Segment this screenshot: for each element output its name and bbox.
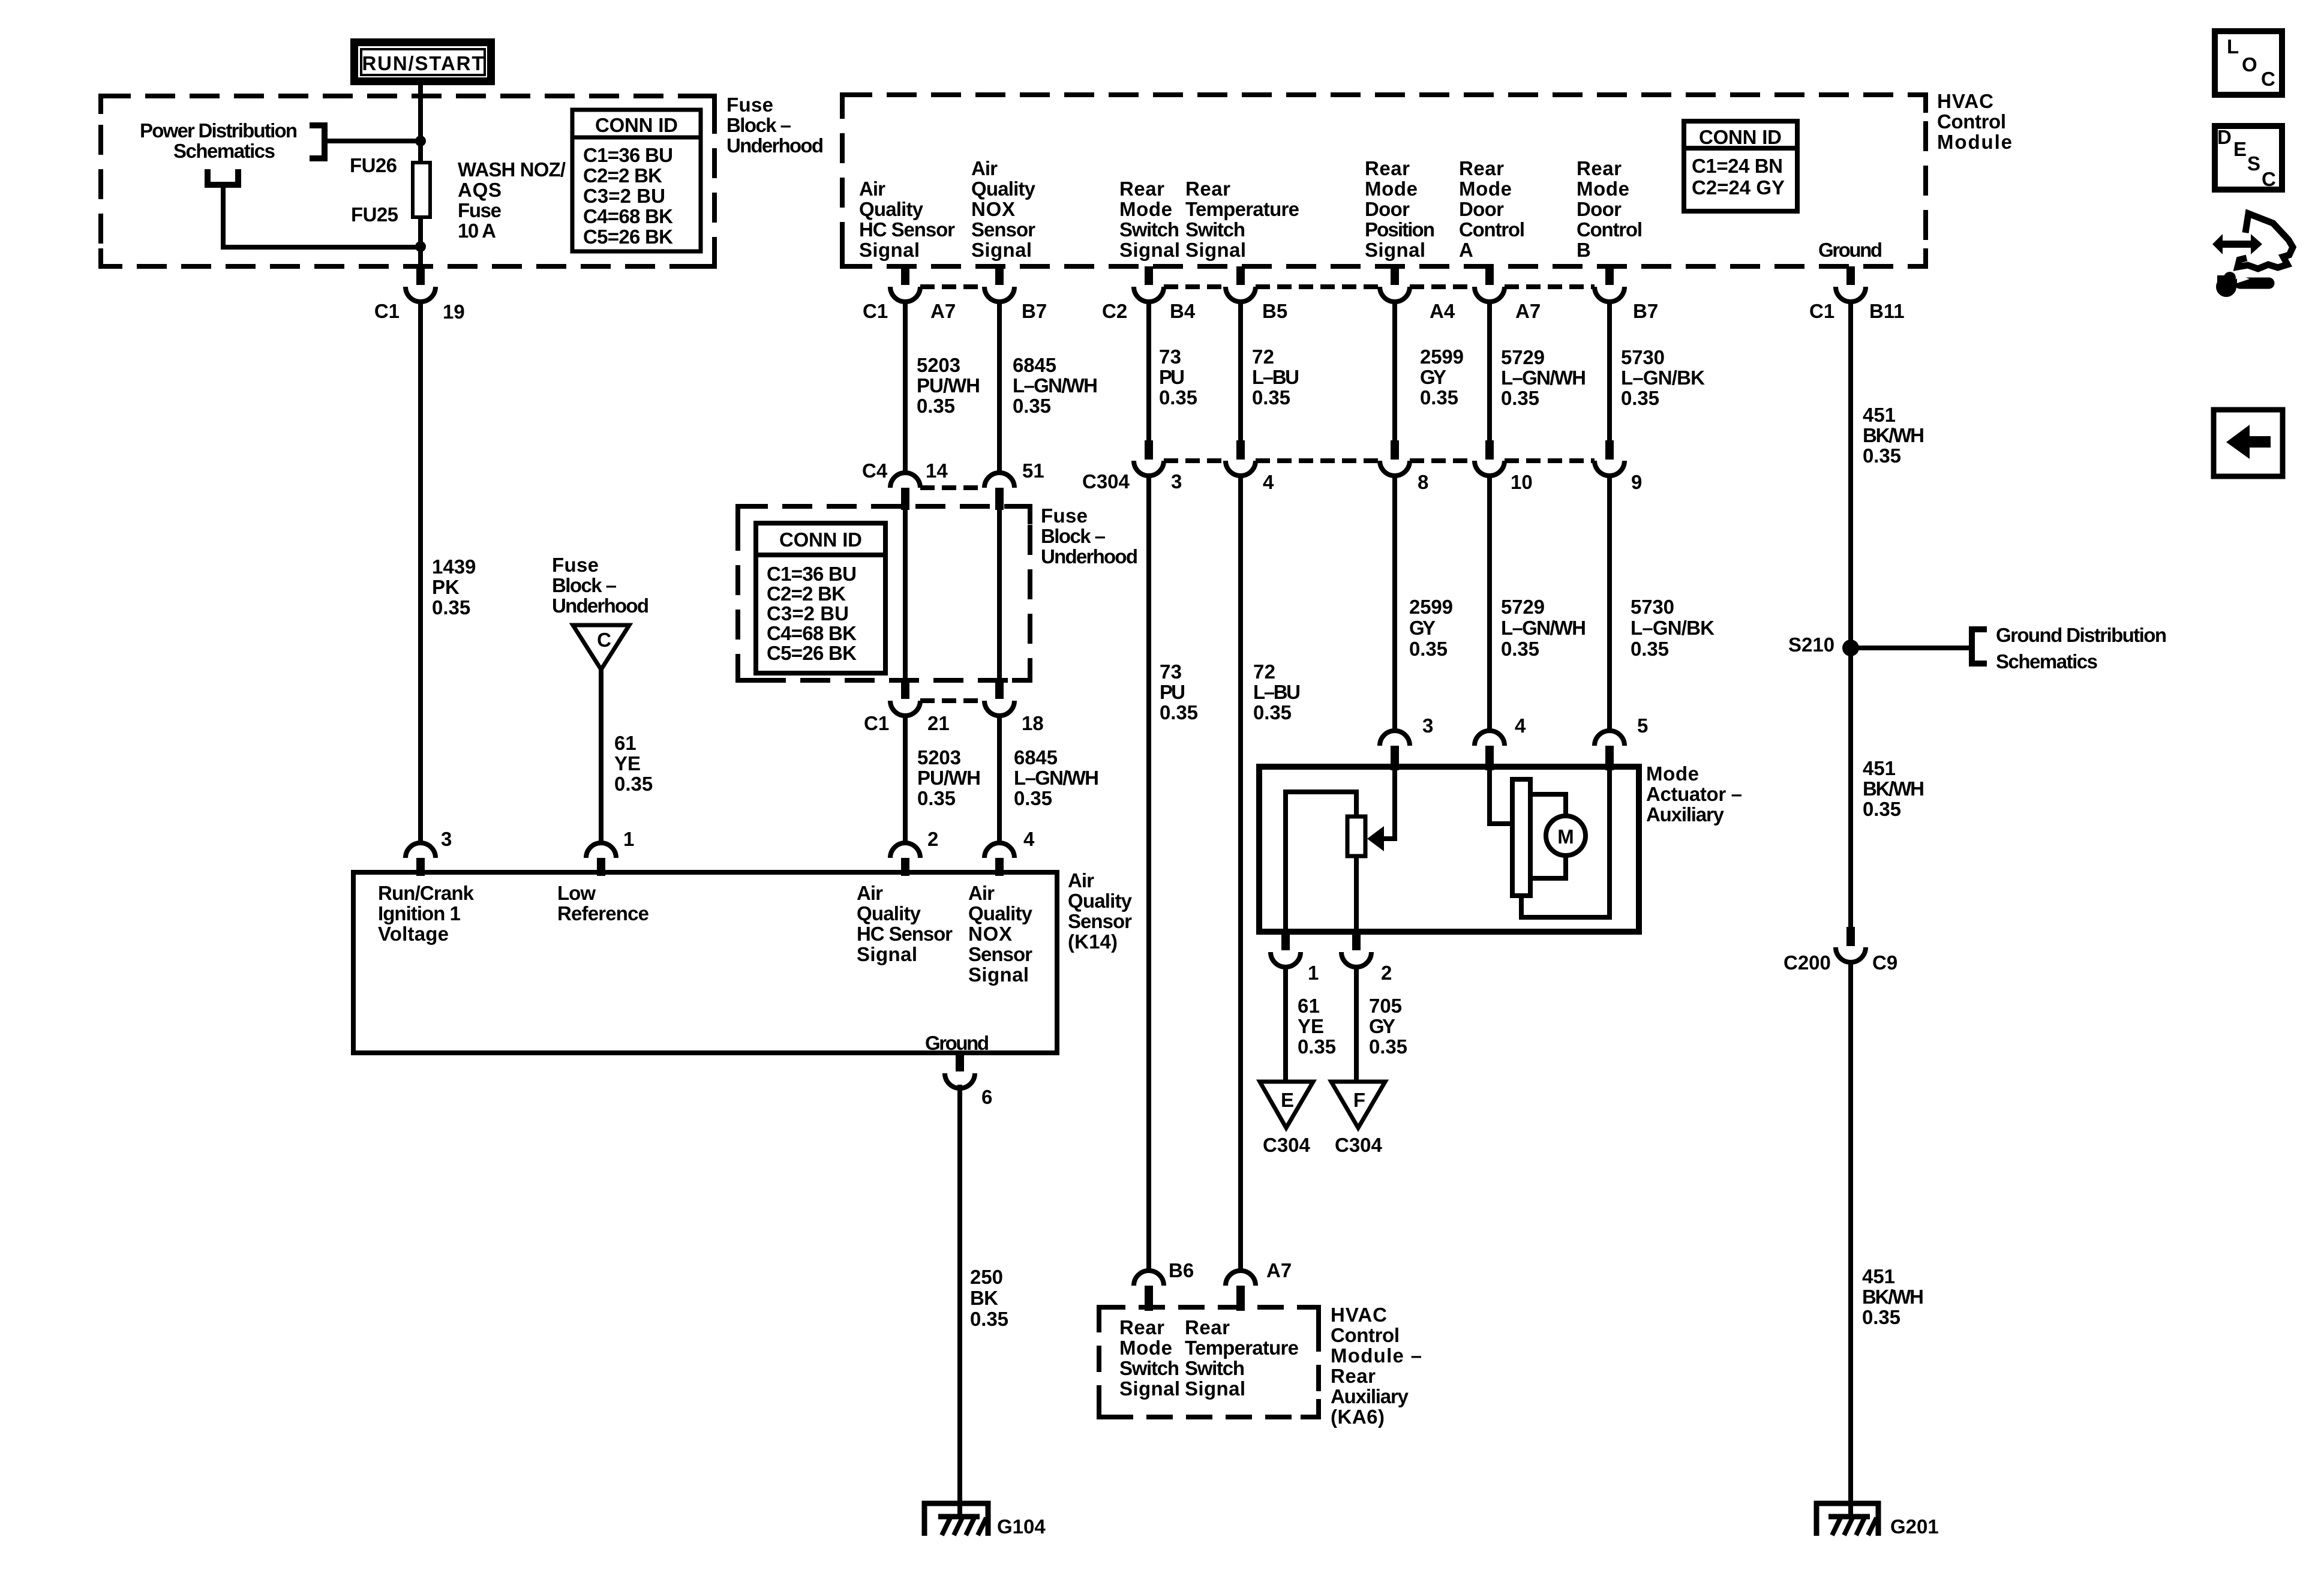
- connector C4 pin 51 (into fuse block): [984, 473, 1014, 488]
- wire 61 YE from triangle C to K14 pin 1: [599, 670, 603, 843]
- svg-text:A7: A7: [930, 300, 956, 322]
- wire fuse to connector C1 19: [418, 217, 423, 268]
- svg-text:14: 14: [926, 460, 948, 482]
- svg-text:Ground: Ground: [925, 1032, 989, 1054]
- wire 451 BK/WH upper: [1848, 300, 1853, 648]
- svg-text:E: E: [2233, 138, 2247, 160]
- svg-text:A7: A7: [1515, 300, 1541, 322]
- svg-text:0.35: 0.35: [1501, 638, 1539, 660]
- potentiometer resistor element: [1347, 816, 1365, 856]
- svg-text:Underhood: Underhood: [726, 134, 824, 157]
- svg-text:Air: Air: [1068, 869, 1094, 891]
- svg-text:L–GN/WH: L–GN/WH: [1501, 617, 1586, 639]
- icon diagnostic wrench: [2212, 234, 2262, 254]
- wire potentiometer bottom to pin 2: [1354, 856, 1359, 929]
- box air quality sensor K14: [353, 872, 1057, 1053]
- svg-text:L–GN/BK: L–GN/BK: [1631, 617, 1715, 639]
- svg-text:C1=36 BU: C1=36 BU: [583, 144, 673, 166]
- svg-text:Fuse: Fuse: [458, 199, 502, 221]
- svg-text:C: C: [2261, 68, 2275, 90]
- svg-text:0.35: 0.35: [1159, 386, 1197, 409]
- ground G201: [1816, 1503, 1878, 1536]
- svg-text:Quality: Quality: [968, 902, 1033, 924]
- svg-text:C4=68 BK: C4=68 BK: [583, 205, 673, 227]
- svg-text:YE: YE: [614, 752, 641, 775]
- svg-text:Sensor: Sensor: [971, 218, 1035, 241]
- wire 5729 L-GN/WH lower: [1487, 474, 1492, 731]
- svg-text:Door: Door: [1365, 198, 1410, 220]
- svg-text:YE: YE: [1298, 1015, 1324, 1037]
- node junction dot top: [415, 136, 426, 146]
- connector C2 pin A4 (rear mode door position): [1391, 266, 1399, 285]
- svg-text:A4: A4: [1430, 300, 1455, 322]
- svg-text:HC Sensor: HC Sensor: [857, 923, 953, 945]
- fuse block - underhood dashed box: [101, 96, 714, 266]
- node junction dot bottom: [415, 241, 426, 252]
- svg-text:D: D: [2217, 126, 2232, 148]
- wire 451 BK/WH lower: [1848, 960, 1853, 1517]
- svg-text:Rear: Rear: [1119, 178, 1164, 200]
- svg-text:73: 73: [1160, 661, 1182, 683]
- svg-text:GY: GY: [1369, 1015, 1395, 1037]
- svg-text:0.35: 0.35: [1863, 798, 1901, 820]
- svg-text:451: 451: [1862, 1265, 1895, 1287]
- connector C1 pin B7 (NOX sensor signal): [995, 266, 1004, 285]
- bracket under Schematics: [208, 169, 238, 185]
- svg-text:GY: GY: [1420, 366, 1446, 388]
- svg-text:L–GN/WH: L–GN/WH: [1013, 374, 1098, 397]
- svg-text:705: 705: [1369, 995, 1402, 1017]
- svg-text:3: 3: [441, 828, 452, 850]
- connector mode actuator pin 2: [1352, 932, 1361, 950]
- svg-text:0.35: 0.35: [1409, 638, 1448, 660]
- connector C4 pin 14 (into fuse block): [890, 473, 920, 488]
- svg-text:1439: 1439: [432, 556, 476, 578]
- svg-text:0.35: 0.35: [1160, 701, 1198, 724]
- wire bracket to junction: [325, 139, 421, 143]
- table CONN ID HVAC control module: [1684, 121, 1797, 211]
- svg-text:61: 61: [1298, 995, 1320, 1017]
- wire 5730 L-GN/BK lower: [1607, 474, 1612, 731]
- svg-text:S: S: [2247, 152, 2260, 175]
- actuator drive bar: [1512, 779, 1530, 896]
- dashed connector line row 2 (C4): [920, 485, 984, 490]
- svg-text:Ground Distribution: Ground Distribution: [1996, 624, 2167, 646]
- svg-text:Signal: Signal: [1185, 1377, 1245, 1400]
- svg-text:B7: B7: [1633, 300, 1658, 322]
- connector C304 pin 9 (inline): [1605, 440, 1614, 460]
- svg-text:CONN ID: CONN ID: [1699, 126, 1782, 148]
- svg-text:Reference: Reference: [557, 902, 649, 924]
- svg-text:5: 5: [1637, 715, 1648, 737]
- svg-text:NOX: NOX: [968, 923, 1012, 945]
- connector C2 pin B7 (rear mode door control B): [1605, 266, 1614, 285]
- svg-text:72: 72: [1253, 661, 1275, 683]
- wire 250 BK to G104: [957, 1085, 962, 1517]
- svg-text:Mode: Mode: [1119, 1337, 1172, 1359]
- svg-text:4: 4: [1263, 471, 1274, 493]
- svg-text:5729: 5729: [1501, 346, 1545, 368]
- connector C304 pin 3 (inline): [1145, 440, 1153, 460]
- svg-text:S210: S210: [1788, 634, 1834, 656]
- wire 72 L-BU upper: [1238, 300, 1243, 442]
- svg-text:Rear: Rear: [1365, 157, 1410, 179]
- connector triangle E: [1260, 1082, 1313, 1128]
- svg-text:Underhood: Underhood: [1041, 545, 1138, 568]
- svg-text:21: 21: [927, 712, 950, 734]
- svg-text:10: 10: [1511, 471, 1533, 493]
- connector K14 pin 6 ground: [956, 1053, 964, 1071]
- bracket to Power Distribution Schematics: [310, 125, 325, 158]
- bracket ground distribution schematics: [1972, 629, 1987, 664]
- svg-text:L: L: [2227, 35, 2239, 58]
- wire 6845 L-GN/WH lower: [997, 714, 1002, 843]
- svg-text:FU26: FU26: [350, 154, 397, 176]
- svg-text:Air: Air: [971, 157, 998, 179]
- connector triangle C fuse block: [573, 625, 629, 670]
- svg-text:B5: B5: [1262, 300, 1287, 322]
- wire 73 PU upper: [1146, 300, 1151, 442]
- icon box back arrow: [2214, 410, 2283, 476]
- svg-text:Power Distribution: Power Distribution: [140, 119, 298, 142]
- svg-text:PU: PU: [1159, 366, 1185, 388]
- motor M circle: [1546, 816, 1586, 855]
- svg-text:Quality: Quality: [971, 178, 1036, 200]
- svg-text:Module: Module: [1937, 131, 2012, 153]
- svg-text:Actuator –: Actuator –: [1646, 783, 1742, 805]
- svg-text:C304: C304: [1263, 1134, 1311, 1156]
- connector C304 pin 10 (inline): [1485, 440, 1494, 460]
- svg-text:Rear: Rear: [1459, 157, 1504, 179]
- svg-text:3: 3: [1171, 470, 1182, 493]
- svg-text:Mode: Mode: [1577, 178, 1629, 200]
- svg-text:Mode: Mode: [1119, 198, 1172, 220]
- svg-text:Switch: Switch: [1185, 218, 1245, 241]
- svg-text:Auxiliary: Auxiliary: [1646, 803, 1725, 825]
- svg-text:5203: 5203: [917, 746, 961, 769]
- svg-text:C9: C9: [1872, 951, 1897, 974]
- svg-text:L–BU: L–BU: [1252, 366, 1299, 388]
- svg-text:2599: 2599: [1420, 346, 1464, 368]
- svg-text:B4: B4: [1170, 300, 1196, 322]
- connector K14 pin 4: [984, 843, 1014, 858]
- svg-text:Fuse: Fuse: [726, 94, 773, 116]
- svg-text:Fuse: Fuse: [1041, 505, 1088, 527]
- svg-text:Control: Control: [1459, 218, 1525, 241]
- connector KA6 pin B6: [1134, 1271, 1164, 1286]
- wire 61 YE to triangle E: [1283, 967, 1288, 1083]
- svg-text:B11: B11: [1869, 300, 1905, 322]
- connector triangle F: [1331, 1082, 1385, 1128]
- svg-text:Module –: Module –: [1331, 1344, 1422, 1367]
- svg-text:19: 19: [443, 301, 465, 323]
- svg-text:RUN/START: RUN/START: [362, 52, 484, 74]
- svg-text:Air: Air: [968, 882, 995, 904]
- svg-text:Signal: Signal: [1119, 239, 1180, 261]
- icon box LOC: [2215, 31, 2282, 95]
- connector K14 pin 2: [890, 843, 920, 858]
- svg-text:8: 8: [1418, 471, 1428, 493]
- svg-text:0.35: 0.35: [970, 1308, 1008, 1330]
- svg-text:Rear: Rear: [1185, 1316, 1230, 1338]
- svg-text:C1: C1: [863, 300, 888, 322]
- svg-text:Voltage: Voltage: [378, 923, 449, 945]
- svg-text:Ignition 1: Ignition 1: [378, 902, 461, 924]
- wire 5203 PU/WH upper: [903, 300, 908, 473]
- svg-text:Sensor: Sensor: [968, 943, 1032, 965]
- svg-text:C1: C1: [1809, 300, 1834, 322]
- svg-text:Quality: Quality: [1068, 890, 1133, 912]
- connector KA6 pin A7: [1226, 1271, 1256, 1286]
- svg-text:Control: Control: [1577, 218, 1643, 241]
- wire from lower bracket to junction 2: [223, 185, 417, 247]
- svg-text:C2=24 GY: C2=24 GY: [1692, 176, 1785, 199]
- svg-text:1: 1: [1308, 962, 1319, 984]
- svg-text:1: 1: [623, 828, 634, 850]
- svg-text:0.35: 0.35: [1863, 445, 1901, 467]
- svg-text:Control: Control: [1331, 1324, 1400, 1346]
- connector C200 pin C9: [1846, 927, 1855, 946]
- svg-text:C1=36 BU: C1=36 BU: [767, 563, 857, 585]
- svg-text:C304: C304: [1335, 1134, 1383, 1156]
- svg-text:C3=2 BU: C3=2 BU: [583, 185, 665, 207]
- HVAC control module rear auxiliary dashed box KA6: [1099, 1307, 1319, 1417]
- svg-text:M: M: [1557, 825, 1574, 848]
- svg-text:C200: C200: [1783, 951, 1831, 974]
- wire mode actuator pin4 to motor bar: [1490, 769, 1514, 824]
- svg-text:WASH NOZ/: WASH NOZ/: [458, 158, 566, 181]
- svg-text:BK/WH: BK/WH: [1863, 424, 1924, 446]
- svg-text:C304: C304: [1082, 470, 1130, 493]
- svg-text:C3=2 BU: C3=2 BU: [767, 602, 849, 625]
- wire 5729 L-GN/WH upper: [1487, 300, 1492, 442]
- svg-text:4: 4: [1023, 828, 1035, 850]
- svg-text:B: B: [1577, 239, 1591, 261]
- svg-text:0.35: 0.35: [1862, 1306, 1900, 1328]
- svg-text:C: C: [2262, 168, 2276, 190]
- connector mode actuator pin 1: [1281, 932, 1290, 950]
- svg-text:0.35: 0.35: [1369, 1035, 1407, 1058]
- svg-text:Block –: Block –: [1041, 525, 1106, 547]
- wire bar to motor top: [1530, 794, 1566, 818]
- wire 451 BK/WH middle: [1848, 648, 1853, 928]
- svg-text:Air: Air: [857, 882, 883, 904]
- svg-text:Signal: Signal: [971, 239, 1032, 261]
- svg-text:PK: PK: [432, 576, 460, 598]
- svg-text:72: 72: [1252, 346, 1274, 368]
- svg-text:Low: Low: [557, 882, 596, 904]
- svg-text:0.35: 0.35: [1501, 387, 1539, 409]
- connector C2 pin B4 (rear mode switch signal): [1145, 266, 1153, 285]
- svg-text:Door: Door: [1459, 198, 1504, 220]
- svg-text:G201: G201: [1890, 1515, 1939, 1538]
- svg-text:Auxiliary: Auxiliary: [1331, 1385, 1409, 1407]
- svg-text:18: 18: [1022, 712, 1044, 734]
- svg-text:451: 451: [1863, 757, 1896, 779]
- svg-text:Mode: Mode: [1646, 763, 1699, 785]
- svg-text:451: 451: [1863, 404, 1896, 426]
- svg-text:5203: 5203: [917, 354, 960, 376]
- svg-text:0.35: 0.35: [917, 395, 955, 417]
- wire 5203 inside fuse block: [903, 510, 908, 679]
- connector K14 pin 3: [406, 843, 436, 858]
- svg-text:A: A: [1459, 239, 1473, 261]
- svg-text:B7: B7: [1022, 300, 1047, 322]
- svg-text:6845: 6845: [1013, 354, 1056, 376]
- svg-text:L–BU: L–BU: [1253, 681, 1301, 703]
- svg-text:Switch: Switch: [1119, 218, 1179, 241]
- svg-text:5730: 5730: [1621, 346, 1665, 368]
- svg-text:F: F: [1353, 1089, 1365, 1111]
- node S210 junction: [1842, 640, 1859, 656]
- svg-text:L–GN/BK: L–GN/BK: [1621, 367, 1705, 389]
- svg-text:HC Sensor: HC Sensor: [859, 218, 955, 241]
- svg-text:Quality: Quality: [859, 198, 924, 220]
- svg-text:HVAC: HVAC: [1331, 1304, 1387, 1326]
- connector mode actuator pin 5: [1595, 731, 1625, 746]
- svg-text:Sensor: Sensor: [1068, 910, 1132, 932]
- connector C1 pin A7 (HC sensor signal): [901, 266, 909, 285]
- svg-text:Mode: Mode: [1459, 178, 1512, 200]
- connector C1 pin B11 (ground): [1846, 266, 1855, 285]
- svg-text:Signal: Signal: [1119, 1377, 1180, 1400]
- svg-text:0.35: 0.35: [1013, 395, 1051, 417]
- svg-text:Signal: Signal: [859, 239, 920, 261]
- svg-text:BK/WH: BK/WH: [1862, 1286, 1924, 1308]
- wire 6845 inside fuse block: [997, 510, 1002, 679]
- svg-text:CONN ID: CONN ID: [595, 114, 678, 136]
- dashed connector line row 1 (C1): [920, 284, 984, 289]
- svg-text:HVAC: HVAC: [1937, 90, 1993, 112]
- svg-text:PU/WH: PU/WH: [917, 374, 980, 397]
- svg-text:CONN ID: CONN ID: [779, 529, 862, 551]
- svg-text:FU25: FU25: [351, 203, 398, 226]
- svg-text:Rear: Rear: [1577, 157, 1622, 179]
- svg-text:Ground: Ground: [1818, 239, 1882, 261]
- wire 73 PU lower: [1146, 474, 1151, 1271]
- svg-text:A7: A7: [1266, 1259, 1292, 1281]
- svg-text:B6: B6: [1169, 1259, 1194, 1281]
- svg-text:C4=68 BK: C4=68 BK: [767, 622, 857, 644]
- svg-text:Door: Door: [1577, 198, 1622, 220]
- svg-text:Rear: Rear: [1185, 178, 1230, 200]
- svg-text:AQS: AQS: [458, 179, 502, 201]
- svg-text:Quality: Quality: [857, 902, 921, 924]
- svg-text:2: 2: [927, 828, 938, 850]
- svg-text:61: 61: [614, 732, 636, 754]
- wire 705 GY to triangle F: [1354, 967, 1359, 1083]
- svg-text:3: 3: [1422, 715, 1433, 737]
- svg-text:C2=2 BK: C2=2 BK: [767, 583, 846, 605]
- box mode actuator auxiliary: [1259, 767, 1639, 932]
- svg-text:GY: GY: [1409, 617, 1436, 639]
- table CONN ID fuse block 2: [756, 523, 885, 673]
- HVAC control module dashed box: [842, 95, 1926, 266]
- dashed connector line row 1 (C2): [1164, 284, 1226, 289]
- table CONN ID fuse block underhood: [572, 110, 701, 251]
- svg-text:Schematics: Schematics: [173, 140, 275, 162]
- svg-text:6: 6: [981, 1086, 992, 1108]
- svg-text:Air: Air: [859, 178, 885, 200]
- svg-text:Signal: Signal: [1185, 239, 1246, 261]
- svg-text:2: 2: [1381, 962, 1392, 984]
- svg-text:0.35: 0.35: [1420, 386, 1458, 409]
- svg-text:0.35: 0.35: [917, 787, 956, 809]
- svg-text:Fuse: Fuse: [552, 554, 599, 576]
- svg-text:10 A: 10 A: [458, 220, 496, 242]
- connector C304 pin 4 (inline): [1236, 440, 1245, 460]
- svg-text:L–GN/WH: L–GN/WH: [1014, 767, 1099, 789]
- connector C2 pin A7 (rear mode door control A): [1485, 266, 1494, 285]
- connector mode actuator pin 3: [1380, 731, 1410, 746]
- svg-text:BK: BK: [970, 1287, 998, 1309]
- svg-text:Mode: Mode: [1365, 178, 1418, 200]
- wire 6845 L-GN/WH upper: [997, 300, 1002, 473]
- svg-text:0.35: 0.35: [1298, 1035, 1336, 1058]
- wire mode actuator pin3 to wiper arrow: [1383, 769, 1395, 839]
- dashed connector line row 3 (C1): [920, 698, 984, 703]
- svg-text:6845: 6845: [1014, 746, 1058, 769]
- svg-text:9: 9: [1631, 471, 1642, 493]
- power feed label box RUN/START: [350, 38, 495, 85]
- wire 5203 PU/WH lower: [903, 714, 908, 843]
- wiper arrowhead: [1367, 826, 1384, 851]
- svg-text:0.35: 0.35: [1253, 701, 1292, 724]
- connector C304 pin 8 (inline): [1391, 440, 1399, 460]
- svg-text:(KA6): (KA6): [1331, 1406, 1385, 1428]
- wire 1439 PK to K14 pin 3: [418, 300, 423, 843]
- svg-text:O: O: [2242, 53, 2257, 76]
- svg-text:0.35: 0.35: [1252, 386, 1290, 409]
- wire motor bottom to bar: [1530, 853, 1566, 878]
- svg-text:Signal: Signal: [968, 963, 1029, 986]
- connector mode actuator pin 4: [1475, 731, 1505, 746]
- svg-text:0.35: 0.35: [1621, 387, 1659, 409]
- svg-text:Switch: Switch: [1119, 1357, 1179, 1379]
- svg-text:C4: C4: [862, 460, 888, 482]
- svg-text:Run/Crank: Run/Crank: [378, 882, 475, 904]
- svg-text:BK/WH: BK/WH: [1863, 778, 1924, 800]
- svg-text:C2: C2: [1102, 300, 1127, 322]
- svg-text:E: E: [1281, 1089, 1294, 1111]
- fuse block - underhood dashed box (second): [738, 506, 1030, 680]
- connector C1 pin 19: [416, 266, 425, 285]
- svg-text:Position: Position: [1365, 218, 1435, 241]
- svg-text:5730: 5730: [1631, 596, 1674, 618]
- wire S210 to bracket: [1851, 646, 1972, 650]
- wire 72 L-BU lower: [1238, 474, 1243, 1271]
- svg-text:C1: C1: [374, 300, 400, 322]
- connector C2 pin B5 (rear temperature switch signal): [1236, 266, 1245, 285]
- wire bar bottom to pin 5: [1521, 769, 1610, 917]
- svg-text:0.35: 0.35: [1014, 787, 1052, 809]
- svg-text:Signal: Signal: [1365, 239, 1425, 261]
- wire RUN/START down to fuse FU26: [418, 85, 423, 163]
- wire 2599 GY lower: [1392, 474, 1397, 731]
- svg-text:Schematics: Schematics: [1996, 650, 2098, 673]
- fuse FU26/FU25 WASH NOZ/AQS 10A: [413, 163, 430, 217]
- svg-text:(K14): (K14): [1068, 930, 1118, 953]
- svg-text:C2=2 BK: C2=2 BK: [583, 164, 662, 187]
- svg-text:Switch: Switch: [1185, 1357, 1245, 1379]
- svg-text:0.35: 0.35: [432, 596, 470, 619]
- svg-text:C1=24 BN: C1=24 BN: [1692, 155, 1783, 177]
- svg-text:G104: G104: [997, 1515, 1046, 1538]
- svg-text:C5=26 BK: C5=26 BK: [767, 642, 857, 664]
- dashed connector line row 2 (C304): [1164, 458, 1226, 463]
- svg-text:L–GN/WH: L–GN/WH: [1501, 367, 1586, 389]
- connector K14 pin 1: [586, 843, 616, 858]
